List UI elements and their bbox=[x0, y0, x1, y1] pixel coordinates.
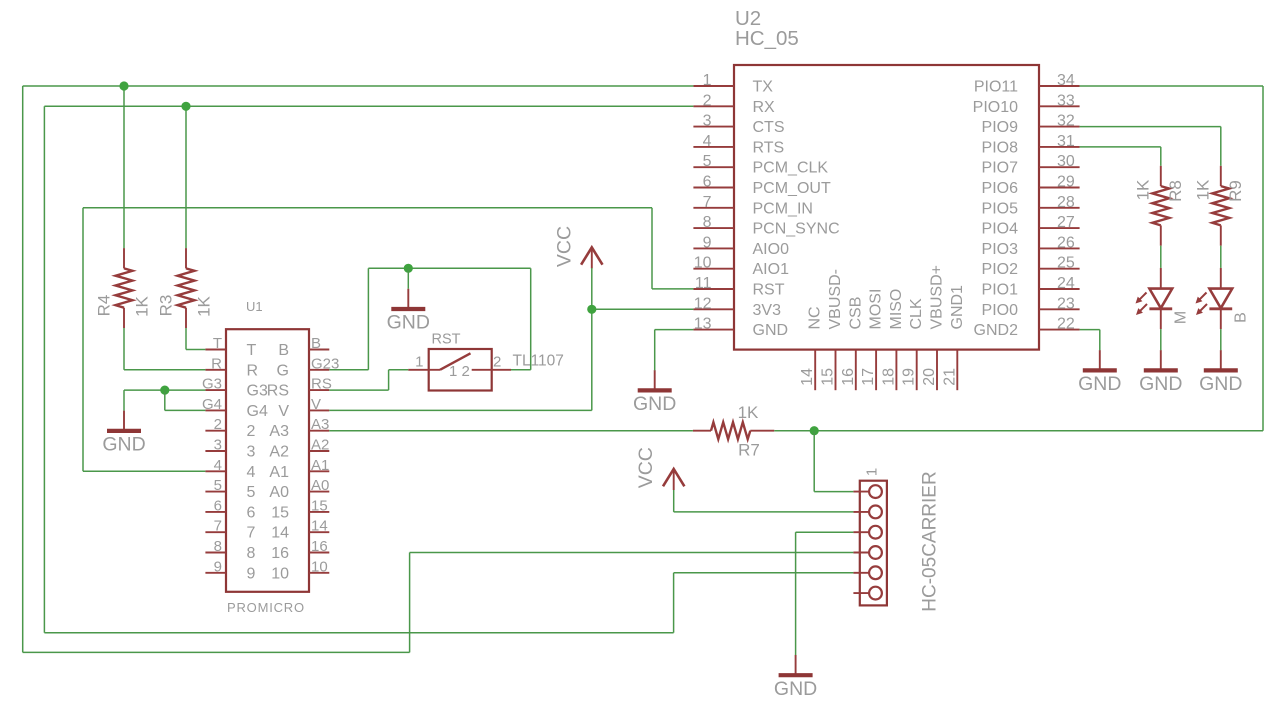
U2 pin 10 (AIO1) bbox=[693, 255, 789, 279]
junction net R7 / carrier pin1 tap bbox=[810, 426, 819, 435]
U2 pin 33 (PIO10) bbox=[973, 92, 1080, 116]
U1 pin 4 (left) bbox=[205, 457, 255, 481]
wire LED M to GND bbox=[1160, 329, 1162, 350]
svg-text:3: 3 bbox=[703, 113, 712, 130]
U1 pin R (left) bbox=[205, 355, 258, 379]
svg-text:24: 24 bbox=[1057, 275, 1075, 292]
wire net RST to U1 pin 4 bbox=[83, 470, 205, 472]
U1 pin 14 (right) bbox=[271, 518, 329, 542]
svg-text:7: 7 bbox=[703, 194, 712, 211]
U2 pin 9 (AIO0) bbox=[693, 234, 789, 258]
svg-text:12: 12 bbox=[694, 295, 712, 312]
svg-text:T: T bbox=[213, 335, 222, 352]
U1 pin RS (right) bbox=[267, 376, 332, 400]
svg-text:3: 3 bbox=[247, 444, 256, 461]
svg-text:A1: A1 bbox=[269, 464, 289, 481]
wire net drop to carrier pin 1 bbox=[813, 431, 815, 492]
svg-text:6: 6 bbox=[214, 497, 222, 514]
svg-text:A3: A3 bbox=[311, 416, 329, 433]
svg-text:10: 10 bbox=[694, 255, 712, 272]
svg-text:30: 30 bbox=[1057, 153, 1075, 170]
junction net GND G3/G4 branch bbox=[160, 386, 169, 395]
U1 pin 10 (right) bbox=[271, 558, 329, 582]
svg-text:PCM_OUT: PCM_OUT bbox=[753, 180, 831, 197]
ground GND (under U2 pin 22) bbox=[1078, 350, 1121, 395]
U2 pin 34 (PIO11) bbox=[974, 72, 1080, 96]
svg-text:MOSI: MOSI bbox=[868, 289, 885, 330]
svg-text:PIO7: PIO7 bbox=[982, 160, 1019, 177]
svg-text:CLK: CLK bbox=[908, 298, 925, 329]
svg-text:R3: R3 bbox=[156, 295, 175, 317]
connector HC-05CARRIER body bbox=[860, 481, 887, 606]
wire net TX to carrier pin 4 bbox=[410, 552, 854, 554]
svg-text:2: 2 bbox=[247, 423, 256, 440]
svg-text:PIO1: PIO1 bbox=[982, 282, 1019, 299]
resistor R8 bbox=[1152, 166, 1169, 246]
svg-text:2: 2 bbox=[462, 363, 470, 380]
svg-text:GND: GND bbox=[1199, 373, 1242, 395]
switch RST lever bbox=[440, 353, 471, 370]
junction net TX / R4 bbox=[119, 81, 128, 90]
U2 pin 11 (RST) bbox=[693, 275, 784, 299]
svg-text:32: 32 bbox=[1057, 113, 1075, 130]
connector pin 1 bbox=[853, 485, 881, 498]
svg-text:PIO10: PIO10 bbox=[973, 99, 1018, 116]
svg-text:2: 2 bbox=[703, 92, 712, 109]
svg-text:R9: R9 bbox=[1226, 180, 1245, 202]
ground GND (under LED B) bbox=[1199, 350, 1242, 395]
svg-text:29: 29 bbox=[1057, 174, 1075, 191]
svg-text:15: 15 bbox=[311, 497, 328, 514]
wire net GND drop under pin 13 bbox=[654, 330, 656, 371]
svg-text:A2: A2 bbox=[269, 444, 289, 461]
svg-text:11: 11 bbox=[695, 275, 712, 292]
svg-text:17: 17 bbox=[860, 368, 877, 386]
svg-text:18: 18 bbox=[880, 368, 897, 386]
svg-text:R7: R7 bbox=[738, 441, 760, 460]
wire net G23 from U1 bbox=[329, 369, 368, 371]
svg-text:2: 2 bbox=[493, 354, 501, 371]
svg-text:26: 26 bbox=[1057, 234, 1075, 251]
U1 pin A0 (right) bbox=[269, 477, 329, 501]
U1 pin 15 (right) bbox=[271, 497, 329, 521]
svg-text:PIO2: PIO2 bbox=[982, 261, 1019, 278]
svg-text:GND: GND bbox=[1139, 373, 1182, 395]
svg-text:TX: TX bbox=[753, 79, 774, 96]
U2 pin 25 (PIO2) bbox=[982, 255, 1080, 279]
wire net G23 down to switch pin 2 bbox=[530, 268, 532, 370]
svg-text:9: 9 bbox=[214, 558, 222, 575]
power VCC symbol (near carrier) bbox=[635, 447, 684, 490]
svg-text:6: 6 bbox=[247, 504, 256, 521]
svg-text:4: 4 bbox=[214, 457, 222, 474]
svg-text:23: 23 bbox=[1057, 295, 1075, 312]
svg-text:CTS: CTS bbox=[753, 119, 785, 136]
svg-text:G: G bbox=[277, 362, 289, 379]
svg-text:21: 21 bbox=[941, 368, 958, 386]
svg-text:V: V bbox=[311, 396, 321, 413]
svg-text:28: 28 bbox=[1057, 194, 1075, 211]
svg-text:PCM_CLK: PCM_CLK bbox=[753, 160, 829, 177]
svg-text:16: 16 bbox=[271, 545, 289, 562]
wire R9 to LED B bbox=[1220, 246, 1222, 268]
U2 pin 12 (3V3) bbox=[693, 295, 781, 319]
svg-text:PCM_IN: PCM_IN bbox=[753, 200, 813, 217]
wire net RX riser bbox=[673, 573, 675, 633]
svg-text:CSB: CSB bbox=[847, 297, 864, 330]
svg-text:A3: A3 bbox=[269, 423, 289, 440]
U1 pin 9 (left) bbox=[205, 558, 255, 582]
U1 pin 2 (left) bbox=[205, 416, 255, 440]
U2 pin 15 (VBUSD-) bbox=[820, 269, 845, 390]
svg-text:A0: A0 bbox=[311, 477, 329, 494]
wire R3 to U1 pin T horizontal bbox=[186, 349, 205, 351]
wire net RX left vertical bbox=[43, 106, 45, 632]
U1 pin 5 (left) bbox=[205, 477, 255, 501]
svg-text:1: 1 bbox=[703, 72, 712, 89]
svg-text:GND: GND bbox=[102, 434, 145, 456]
ground GND (above switch) bbox=[387, 289, 430, 334]
svg-text:31: 31 bbox=[1057, 133, 1075, 150]
svg-text:3V3: 3V3 bbox=[753, 302, 782, 319]
svg-text:PIO0: PIO0 bbox=[982, 302, 1019, 319]
svg-text:HC_05: HC_05 bbox=[735, 27, 799, 50]
svg-text:6: 6 bbox=[703, 174, 712, 191]
svg-text:16: 16 bbox=[840, 368, 857, 386]
wire net G23 to GND symbol bbox=[407, 268, 409, 288]
svg-text:16: 16 bbox=[311, 538, 328, 555]
wire net VCC to carrier pin 2 bbox=[674, 511, 854, 513]
U2 pin 21 (GND1) bbox=[941, 285, 966, 390]
svg-text:7: 7 bbox=[247, 525, 256, 542]
svg-text:R4: R4 bbox=[94, 295, 113, 317]
svg-text:PIO3: PIO3 bbox=[982, 241, 1019, 258]
U2 pin 30 (PIO7) bbox=[982, 153, 1080, 177]
wire GND to U1 G3 vertical bbox=[123, 390, 125, 411]
wire net PIO9 from U2 pin 32 bbox=[1080, 126, 1221, 128]
wire net PIO9 drop to R9 bbox=[1220, 127, 1222, 166]
svg-text:4: 4 bbox=[703, 133, 712, 150]
svg-text:PIO9: PIO9 bbox=[982, 119, 1019, 136]
wire net VCC vertical bbox=[591, 268, 593, 410]
U1 pin B (right) bbox=[278, 335, 329, 359]
U2 pin 26 (PIO3) bbox=[982, 234, 1080, 258]
wire net RS from U1 bbox=[329, 389, 388, 391]
svg-text:1: 1 bbox=[863, 468, 880, 476]
svg-text:9: 9 bbox=[247, 565, 256, 582]
svg-text:AIO1: AIO1 bbox=[753, 261, 790, 278]
svg-text:GND: GND bbox=[753, 322, 789, 339]
svg-text:8: 8 bbox=[214, 538, 222, 555]
U1 pin 3 (left) bbox=[205, 437, 255, 461]
wire GND to U1 G3 horizontal bbox=[124, 389, 205, 391]
svg-text:1K: 1K bbox=[1133, 179, 1152, 200]
wire R8 to LED M bbox=[1160, 246, 1162, 268]
svg-text:GND: GND bbox=[387, 312, 430, 334]
svg-text:1K: 1K bbox=[738, 403, 759, 422]
U2 pin 16 (CSB) bbox=[840, 297, 865, 391]
svg-text:33: 33 bbox=[1057, 92, 1075, 109]
svg-text:5: 5 bbox=[247, 484, 256, 501]
ground GND (under U2 pin 13) bbox=[633, 370, 676, 415]
svg-text:B: B bbox=[1232, 312, 1249, 323]
wire net TX bottom horizontal bbox=[23, 651, 410, 653]
svg-text:10: 10 bbox=[311, 558, 328, 575]
U2 pin 18 (MISO) bbox=[880, 289, 905, 391]
wire R4 to U1 pin R horizontal bbox=[124, 369, 205, 371]
U2 pin 20 (VBUSD+) bbox=[921, 265, 946, 390]
svg-text:TL1107: TL1107 bbox=[513, 353, 564, 370]
svg-text:PIO4: PIO4 bbox=[982, 221, 1019, 238]
wire net R7 right long horizontal bbox=[774, 430, 1263, 432]
svg-text:R8: R8 bbox=[1166, 180, 1185, 202]
wire net TX horizontal top bbox=[23, 85, 694, 87]
wire net RX bottom horizontal bbox=[44, 632, 673, 634]
resistor R4 bbox=[116, 248, 133, 328]
wire net GND from U2 pin 13 bbox=[655, 329, 694, 331]
svg-text:VCC: VCC bbox=[635, 447, 657, 488]
svg-text:13: 13 bbox=[694, 316, 712, 333]
svg-text:R: R bbox=[211, 355, 222, 372]
wire branch to U1 G4 vertical bbox=[164, 390, 166, 410]
svg-text:19: 19 bbox=[901, 368, 918, 386]
U2 pin 2 (RX) bbox=[693, 92, 775, 116]
wire net GND2 drop bbox=[1099, 330, 1101, 351]
U2 pin 31 (PIO8) bbox=[982, 133, 1080, 157]
connector pin 3 bbox=[853, 526, 881, 539]
wire branch to U1 G4 horizontal bbox=[165, 409, 206, 411]
svg-text:VBUSD-: VBUSD- bbox=[827, 269, 844, 329]
svg-text:1K: 1K bbox=[132, 295, 151, 316]
svg-text:VCC: VCC bbox=[554, 226, 576, 267]
svg-text:14: 14 bbox=[799, 368, 816, 386]
U2 pin 14 (NC) bbox=[799, 306, 824, 390]
U1 pin G23 (right) bbox=[277, 355, 340, 379]
wire net RST to U2 pin 11 bbox=[652, 288, 693, 290]
svg-text:14: 14 bbox=[271, 525, 289, 542]
svg-text:RX: RX bbox=[753, 99, 776, 116]
wire LED B to GND bbox=[1220, 329, 1222, 350]
resistor R7 bbox=[693, 422, 774, 439]
svg-text:A0: A0 bbox=[269, 484, 289, 501]
U2 pin 4 (RTS) bbox=[693, 133, 784, 157]
wire net TX riser bbox=[409, 553, 411, 653]
U2 pin 1 (TX) bbox=[693, 72, 773, 96]
svg-text:1: 1 bbox=[415, 354, 423, 371]
svg-text:9: 9 bbox=[703, 234, 712, 251]
wire net RST riser right bbox=[651, 208, 653, 289]
wire net PIO8 from U2 pin 31 bbox=[1080, 146, 1161, 148]
svg-text:RST: RST bbox=[753, 282, 785, 299]
svg-text:M: M bbox=[1172, 311, 1189, 324]
wire net RST horizontal top bbox=[83, 207, 652, 209]
wire net GND carrier vertical bbox=[795, 532, 797, 655]
svg-text:AIO0: AIO0 bbox=[753, 241, 790, 258]
U2 pin 22 (GND2) bbox=[974, 316, 1080, 340]
wire net A3 to R7 left bbox=[329, 430, 693, 432]
svg-text:HC-05CARRIER: HC-05CARRIER bbox=[920, 471, 941, 611]
wire net G23 riser bbox=[367, 268, 369, 370]
wire net RS riser bbox=[388, 370, 390, 390]
svg-text:10: 10 bbox=[271, 565, 289, 582]
svg-text:PIO11: PIO11 bbox=[974, 79, 1018, 96]
U2 pin 3 (CTS) bbox=[693, 113, 784, 137]
svg-text:V: V bbox=[278, 403, 289, 420]
connector pin 6 bbox=[853, 587, 881, 600]
svg-text:T: T bbox=[247, 342, 257, 359]
U1 pin A3 (right) bbox=[269, 416, 329, 440]
svg-text:5: 5 bbox=[214, 477, 222, 494]
U1 pin G4 (left) bbox=[202, 396, 268, 420]
wire net RX drop to R3 bbox=[185, 106, 187, 248]
svg-text:RTS: RTS bbox=[753, 139, 785, 156]
IC U1 PROMICRO body bbox=[226, 329, 309, 592]
svg-text:25: 25 bbox=[1057, 255, 1075, 272]
svg-text:VBUSD+: VBUSD+ bbox=[929, 265, 946, 329]
svg-text:7: 7 bbox=[214, 518, 222, 535]
LED M bbox=[1136, 268, 1173, 329]
svg-text:PIO6: PIO6 bbox=[982, 180, 1019, 197]
junction net VCC junction bbox=[587, 305, 596, 314]
switch RST body bbox=[429, 349, 492, 391]
svg-text:RST: RST bbox=[432, 332, 461, 348]
svg-text:22: 22 bbox=[1057, 316, 1075, 333]
svg-text:27: 27 bbox=[1057, 214, 1075, 231]
wire net PIO11 from U2 pin 34 bbox=[1080, 85, 1263, 87]
junction net G23 / GND tap bbox=[404, 264, 413, 273]
svg-text:1K: 1K bbox=[194, 295, 213, 316]
U1 pin 8 (left) bbox=[205, 538, 255, 562]
U2 pin 23 (PIO0) bbox=[982, 295, 1080, 319]
LED B bbox=[1196, 268, 1233, 329]
svg-text:MISO: MISO bbox=[888, 289, 905, 330]
U2 pin 24 (PIO1) bbox=[982, 275, 1080, 299]
U1 pin 16 (right) bbox=[271, 538, 329, 562]
svg-text:3: 3 bbox=[214, 437, 222, 454]
wire net RX to carrier pin 5 bbox=[674, 572, 854, 574]
svg-text:GND2: GND2 bbox=[974, 322, 1019, 339]
svg-text:15: 15 bbox=[271, 504, 289, 521]
junction net RX / R3 bbox=[181, 102, 190, 111]
wire net PIO11 right vertical bbox=[1262, 86, 1264, 431]
wire net VCC to U1 pin V bbox=[329, 409, 592, 411]
U2 pin 7 (PCM_IN) bbox=[693, 194, 813, 218]
svg-text:A1: A1 bbox=[311, 457, 329, 474]
svg-text:PROMICRO: PROMICRO bbox=[227, 600, 305, 615]
U2 pin 5 (PCM_CLK) bbox=[693, 153, 828, 177]
svg-text:5: 5 bbox=[703, 153, 712, 170]
svg-text:GND: GND bbox=[774, 678, 817, 700]
U2 pin 32 (PIO9) bbox=[982, 113, 1080, 137]
connector pin 2 bbox=[853, 506, 881, 519]
U1 pin A1 (right) bbox=[269, 457, 329, 481]
IC U2 HC_05 body bbox=[734, 65, 1039, 350]
resistor R9 bbox=[1212, 166, 1229, 246]
power VCC symbol (near U2 3V3) bbox=[554, 226, 603, 268]
U2 pin 17 (MOSI) bbox=[860, 289, 885, 391]
svg-text:2: 2 bbox=[214, 416, 222, 433]
U1 pin T (left) bbox=[205, 335, 256, 359]
U2 pin 27 (PIO4) bbox=[982, 214, 1080, 238]
U1 pin A2 (right) bbox=[269, 437, 329, 461]
svg-text:4: 4 bbox=[247, 464, 256, 481]
svg-text:U1: U1 bbox=[246, 299, 263, 314]
wire R4 to U1 pin R vertical bbox=[123, 328, 125, 370]
svg-text:RS: RS bbox=[267, 383, 289, 400]
svg-text:G3: G3 bbox=[247, 383, 268, 400]
svg-text:NC: NC bbox=[807, 306, 824, 329]
ground GND (under LED M) bbox=[1139, 350, 1182, 395]
wire net TX drop to R4 bbox=[123, 86, 125, 248]
svg-text:B: B bbox=[311, 335, 321, 352]
wire R3 to U1 pin T vertical bbox=[185, 328, 187, 350]
U1 pin 6 (left) bbox=[205, 497, 255, 521]
wire net RST left vertical bbox=[82, 208, 84, 472]
ground GND (under carrier) bbox=[774, 655, 817, 700]
wire net VCC to U2 pin 12 bbox=[592, 308, 694, 310]
wire net PIO8 drop to R8 bbox=[1160, 147, 1162, 166]
wire net G23 stub to switch pin 2 bbox=[511, 369, 531, 371]
svg-text:B: B bbox=[278, 342, 289, 359]
wire net RS to switch pin 1 bbox=[389, 369, 409, 371]
wire net TX left vertical bbox=[22, 86, 24, 652]
U2 pin 28 (PIO5) bbox=[982, 194, 1080, 218]
switch RST pin 2 bbox=[462, 354, 512, 381]
svg-text:PIO5: PIO5 bbox=[982, 200, 1019, 217]
svg-text:A2: A2 bbox=[311, 437, 329, 454]
wire net GND2 from U2 pin 22 bbox=[1080, 329, 1100, 331]
svg-text:8: 8 bbox=[247, 545, 256, 562]
wire net G23 top horizontal bbox=[368, 267, 530, 269]
U1 pin V (right) bbox=[278, 396, 329, 420]
svg-text:20: 20 bbox=[921, 368, 938, 386]
svg-text:8: 8 bbox=[703, 214, 712, 231]
U2 pin 6 (PCM_OUT) bbox=[693, 174, 831, 198]
ground GND (left, under R4 column) bbox=[102, 411, 145, 456]
connector pin 4 bbox=[853, 546, 881, 559]
svg-text:PIO8: PIO8 bbox=[982, 139, 1019, 156]
U2 pin 29 (PIO6) bbox=[982, 174, 1080, 198]
wire net VCC carrier drop bbox=[673, 490, 675, 512]
U2 pin 19 (CLK) bbox=[901, 298, 926, 390]
switch RST pin 1 bbox=[408, 354, 457, 381]
svg-text:GND1: GND1 bbox=[949, 285, 966, 330]
U2 pin 8 (PCN_SYNC) bbox=[693, 214, 839, 238]
svg-text:15: 15 bbox=[820, 368, 837, 386]
svg-text:PCN_SYNC: PCN_SYNC bbox=[753, 221, 840, 238]
connector pin 5 bbox=[853, 566, 881, 579]
U1 pin 7 (left) bbox=[205, 518, 255, 542]
wire net to carrier pin 1 bbox=[814, 491, 853, 493]
svg-text:GND: GND bbox=[1078, 373, 1121, 395]
svg-text:34: 34 bbox=[1057, 72, 1075, 89]
svg-text:14: 14 bbox=[311, 518, 328, 535]
svg-text:G4: G4 bbox=[247, 403, 268, 420]
wire net RX horizontal top bbox=[44, 105, 693, 107]
svg-text:GND: GND bbox=[633, 393, 676, 415]
resistor R3 bbox=[178, 248, 195, 328]
svg-text:RS: RS bbox=[311, 376, 332, 393]
svg-text:R: R bbox=[247, 362, 259, 379]
U1 pin G3 (left) bbox=[202, 376, 268, 400]
svg-text:1K: 1K bbox=[1193, 179, 1212, 200]
wire net GND to carrier pin 3 bbox=[796, 531, 854, 533]
U2 pin 13 (GND) bbox=[693, 316, 788, 340]
